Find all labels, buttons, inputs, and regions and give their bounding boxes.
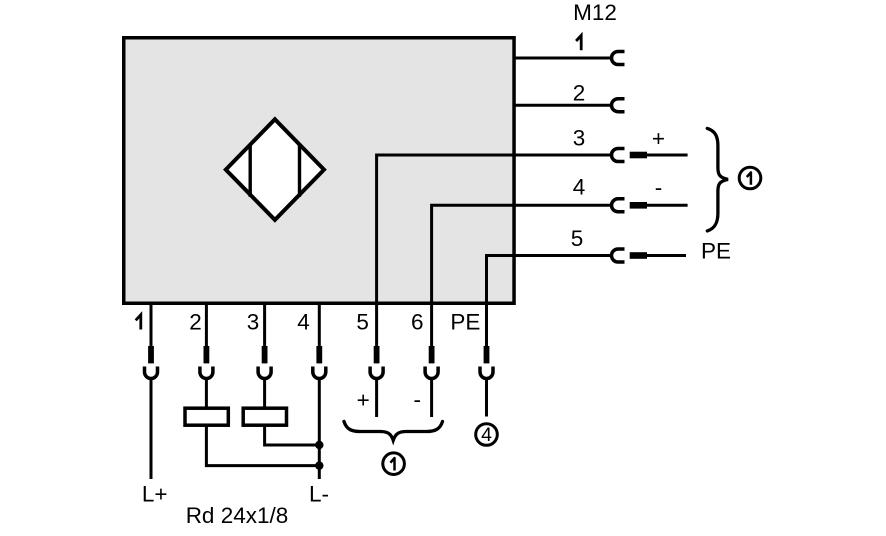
wire: terminal PE tail	[485, 379, 488, 417]
svg-text:+: +	[652, 126, 665, 151]
pin ferrule terminal 6	[429, 346, 435, 363]
brace pins 3-4	[707, 128, 728, 231]
terminal 1 stem	[150, 303, 153, 346]
svg-text:PE: PE	[450, 310, 480, 335]
pin ferrule terminal 4	[316, 346, 322, 363]
socket terminal 4	[313, 367, 326, 379]
wire: terminal 6 tail	[430, 379, 433, 417]
svg-text:Rd 24x1/8: Rd 24x1/8	[186, 503, 289, 528]
ferrule pin3	[630, 152, 647, 159]
wire: pin5 external lead	[647, 254, 686, 257]
terminal 4 stem	[318, 303, 321, 346]
wire: pin4 external lead	[647, 204, 688, 207]
svg-text:L+: L+	[142, 481, 168, 506]
socket terminal 1	[145, 367, 158, 379]
wire: terminal 4 to L-	[318, 379, 321, 479]
wire: terminal 2 to resistor R1	[205, 379, 208, 408]
wire: M12 pin1 lead	[514, 57, 612, 60]
pin ferrule terminal 2	[204, 346, 210, 363]
svg-text:4: 4	[573, 175, 586, 200]
wire: resistor R1 to L- node	[206, 425, 317, 465]
wire: terminal 5 tail	[375, 379, 378, 417]
wire: terminal6 to M12 pin4	[432, 205, 612, 346]
socket terminal PE	[480, 367, 493, 379]
callout 1 (bottom)	[383, 453, 405, 475]
wire: M12 pin2 lead	[514, 104, 612, 107]
sensor body U1	[124, 38, 514, 304]
svg-text:-: -	[655, 175, 663, 200]
pin number 1	[576, 35, 581, 50]
socket terminal 6	[425, 367, 438, 379]
svg-text:-: -	[413, 387, 421, 412]
svg-text:5: 5	[571, 226, 584, 251]
socket contact M12 pin3	[612, 149, 625, 162]
svg-text:5: 5	[356, 310, 369, 335]
socket terminal 3	[258, 367, 271, 379]
junction node (R1 to L-)	[315, 461, 323, 469]
socket terminal 2	[200, 367, 213, 379]
callout 1 (right)	[739, 167, 761, 189]
resistor R2	[243, 408, 286, 425]
pin ferrule terminal 5	[374, 346, 380, 363]
pin ferrule terminal 3	[262, 346, 268, 363]
wire: terminal 1 to L+	[150, 379, 153, 479]
socket contact M12 pin1	[612, 52, 625, 65]
svg-text:PE: PE	[701, 239, 731, 264]
svg-text:M12: M12	[573, 0, 617, 25]
svg-text:3: 3	[573, 126, 586, 151]
socket terminal 5	[370, 367, 383, 379]
svg-text:4: 4	[297, 310, 310, 335]
svg-text:6: 6	[411, 310, 424, 335]
svg-text:3: 3	[247, 310, 260, 335]
wire: pin3 external lead	[647, 154, 688, 157]
pin ferrule terminal 1	[148, 346, 154, 363]
svg-text:2: 2	[189, 310, 202, 335]
wire: terminalPE to M12 pin5	[487, 256, 613, 347]
junction node (R2 to L-)	[315, 441, 323, 449]
terminal label 1	[136, 315, 141, 330]
wire: resistor R2 to L- node	[265, 425, 317, 445]
ferrule pin4	[630, 202, 647, 209]
brace terminals 5-6	[344, 422, 443, 441]
callout 4 (PE)	[476, 424, 498, 446]
socket contact M12 pin2	[612, 99, 625, 112]
socket contact M12 pin5	[612, 249, 625, 262]
measuring cell symbol	[226, 119, 324, 220]
ferrule pin5	[630, 252, 647, 259]
terminal 3 stem	[263, 303, 266, 346]
terminal 2 stem	[205, 303, 208, 346]
socket contact M12 pin4	[612, 199, 625, 212]
wire: terminal 3 to resistor R2	[263, 379, 266, 408]
resistor R1	[185, 408, 228, 425]
pin ferrule terminal PE	[484, 346, 490, 363]
svg-text:4: 4	[481, 424, 492, 446]
svg-text:L-: L-	[309, 481, 329, 506]
wire: terminal5 to M12 pin3	[377, 155, 612, 346]
svg-text:2: 2	[573, 80, 586, 105]
svg-text:+: +	[357, 388, 370, 413]
